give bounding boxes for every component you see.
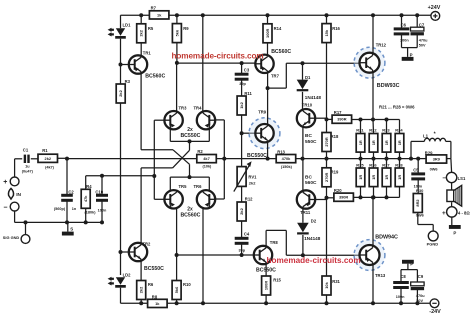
svg-text:R2: R2 — [197, 149, 203, 154]
svg-text:R27: R27 — [382, 162, 390, 167]
wire TR1 to lower pair tail — [141, 149, 173, 151]
inductor L1 — [410, 141, 412, 158]
wire TR8 emitter to R15 — [265, 264, 267, 276]
svg-text:C6: C6 — [401, 23, 407, 28]
svg-text:L1: L1 — [423, 133, 429, 138]
wire TR10 base to node — [315, 117, 326, 119]
svg-text:LD1: LD1 — [123, 23, 132, 28]
node rail R5/R7 — [139, 13, 143, 17]
wire TR11 base — [315, 199, 326, 201]
node C4 / TR8 base wire — [240, 253, 244, 257]
wire input plus to C1 — [14, 159, 16, 177]
svg-text:(4k7): (4k7) — [45, 166, 55, 170]
resistor R1 — [38, 154, 58, 162]
wire TR10 emitter to bus — [302, 127, 304, 158]
svg-text:1R: 1R — [371, 175, 376, 180]
wire TR9 collector up — [267, 88, 269, 124]
svg-text:1R: 1R — [384, 140, 389, 145]
svg-text:R3: R3 — [125, 79, 131, 84]
svg-text:2k2: 2k2 — [239, 207, 244, 214]
svg-text:1R: 1R — [384, 175, 389, 180]
resistor R9 — [176, 15, 178, 23]
transistor TR3 — [164, 111, 182, 129]
svg-text:R6: R6 — [148, 282, 154, 287]
svg-text:8R2: 8R2 — [415, 199, 420, 207]
transistor TR5 — [164, 190, 182, 208]
node D1 anode — [301, 61, 305, 65]
svg-text:BC: BC — [305, 133, 312, 139]
transistor TR9 — [249, 118, 280, 149]
wire TR3 collector — [176, 63, 178, 111]
node L1 riser — [409, 157, 413, 161]
resistor R31 — [322, 276, 331, 295]
capacitor C3 — [241, 63, 243, 74]
transistor TR7 — [255, 55, 273, 73]
svg-text:TR11: TR11 — [300, 210, 311, 215]
svg-text:+: + — [442, 210, 446, 217]
wire R16 to driver node — [326, 43, 328, 120]
node feedback — [216, 158, 276, 160]
resistor R21 — [360, 120, 362, 134]
wire upper tail — [189, 141, 191, 150]
svg-text:BC550C: BC550C — [247, 153, 267, 159]
node TR7 collector / TR9 collector — [267, 73, 269, 88]
wire TR1 collector down — [140, 74, 142, 150]
transistor TR11 — [297, 190, 315, 208]
wire TR5/TR6 emitter bridge — [169, 177, 171, 190]
wire TR11 collector to bus — [302, 159, 304, 191]
resistor R22 — [372, 120, 375, 134]
svg-text:1R: 1R — [358, 175, 363, 180]
svg-text:1R: 1R — [371, 140, 376, 145]
resistor R2 — [197, 155, 217, 163]
wire emitter resistor top row feed — [352, 119, 400, 121]
svg-text:+: + — [3, 179, 7, 186]
svg-text:homemade-circuits.com: homemade-circuits.com — [267, 256, 361, 265]
svg-text:C9: C9 — [418, 274, 424, 279]
wire lower tail — [189, 164, 191, 177]
svg-text:TR3: TR3 — [179, 105, 188, 110]
svg-text:39p: 39p — [239, 82, 246, 86]
ground S symbol — [67, 222, 69, 231]
transistor TR8 — [177, 254, 254, 256]
svg-text:470k: 470k — [282, 156, 291, 161]
svg-text:50V: 50V — [419, 43, 426, 47]
wire TR12 collector to rail — [372, 15, 374, 53]
node TR9 base — [240, 131, 244, 135]
speaker LS1 — [451, 183, 453, 190]
transistor TR4 — [197, 111, 215, 129]
svg-text:SIG GND: SIG GND — [3, 235, 20, 240]
svg-text:R30: R30 — [416, 188, 424, 193]
svg-text:1N4148: 1N4148 — [305, 95, 322, 100]
terminal PGND — [428, 231, 438, 241]
terminal input minus — [10, 202, 19, 211]
svg-text:5k6: 5k6 — [174, 286, 179, 293]
svg-text:R1: R1 — [42, 148, 48, 153]
wire TR13 emitter up — [372, 197, 374, 245]
wire output to speaker — [450, 159, 453, 173]
wire TR13 collector to rail — [372, 265, 374, 304]
ground P top — [407, 48, 409, 57]
svg-text:TR1: TR1 — [143, 51, 152, 56]
terminal input plus — [10, 177, 19, 186]
wire TR9 emitter to bus — [267, 142, 269, 158]
wire -24V bottom rail — [121, 302, 431, 304]
svg-text:P: P — [410, 261, 413, 266]
svg-text:R17: R17 — [334, 110, 342, 115]
resistor R6 — [137, 281, 146, 300]
wire R4/C10 line — [85, 176, 87, 190]
svg-text:R31: R31 — [332, 279, 340, 284]
svg-text:270R: 270R — [324, 137, 329, 146]
wire rail to TR4 collector — [201, 13, 205, 17]
resistor R25 — [360, 159, 362, 168]
resistor R7 — [149, 11, 169, 19]
svg-text:R16: R16 — [332, 26, 340, 31]
svg-text:2k2: 2k2 — [45, 156, 52, 161]
wire output bus — [296, 158, 411, 160]
svg-text:R28: R28 — [395, 162, 403, 167]
wire LED chain middle — [120, 103, 122, 275]
resistor R15 — [262, 276, 271, 295]
svg-text:270R: 270R — [324, 172, 329, 181]
svg-text:1N4148: 1N4148 — [304, 236, 321, 241]
svg-text:R12: R12 — [245, 197, 253, 202]
svg-text:BC560C: BC560C — [180, 213, 200, 219]
trimmer RV1 — [237, 167, 246, 187]
resistor R11 — [237, 96, 246, 115]
svg-text:R25: R25 — [356, 162, 364, 167]
svg-text:R24: R24 — [395, 128, 403, 133]
wire R9 node to TR7 base — [177, 62, 255, 64]
wire C2 stub — [66, 159, 68, 195]
wire TR12 emitter — [372, 73, 374, 120]
svg-text:560C: 560C — [305, 180, 317, 186]
transistor TR10 — [297, 109, 315, 127]
svg-text:R19: R19 — [331, 170, 339, 175]
wire TR5 collector to R10 — [176, 208, 178, 280]
wire to TR12 base — [268, 87, 287, 89]
svg-text:TR12: TR12 — [376, 43, 387, 48]
svg-text:TR9: TR9 — [258, 110, 267, 115]
svg-text:C10: C10 — [95, 190, 103, 195]
svg-text:4k7: 4k7 — [203, 156, 210, 161]
svg-text:0W6: 0W6 — [430, 166, 439, 171]
svg-text:R29: R29 — [425, 151, 433, 156]
resistor R5 — [140, 15, 142, 24]
wire C8 C9 join — [401, 269, 417, 271]
svg-text:R23: R23 — [382, 128, 390, 133]
resistor R17 — [327, 118, 333, 120]
svg-text:R20: R20 — [334, 188, 342, 193]
capacitor C7 — [415, 13, 419, 17]
svg-text:LS1: LS1 — [458, 176, 466, 181]
svg-text:R9: R9 — [183, 26, 189, 31]
resistor R26 — [373, 159, 375, 168]
node D2 / TR13 base wire — [301, 253, 305, 257]
svg-text:TR7: TR7 — [271, 73, 280, 78]
resistor R20 — [327, 197, 335, 199]
wire +24V top rail — [121, 14, 432, 16]
svg-text:+24V: +24V — [428, 5, 441, 11]
svg-text:BDW93C: BDW93C — [377, 83, 400, 89]
svg-text:BC550C: BC550C — [180, 133, 200, 139]
svg-text:P: P — [410, 52, 413, 57]
wire TR8 collector to TR13 base — [265, 230, 267, 246]
wire emitter resistor bottom row feed — [353, 196, 399, 198]
svg-text:470u: 470u — [419, 39, 428, 43]
resistor R19 — [326, 159, 328, 168]
node rail R7/R9 — [175, 13, 179, 17]
diode D2 — [302, 209, 304, 223]
transistor TR2 — [121, 251, 129, 253]
svg-text:1R: 1R — [397, 175, 402, 180]
svg-text:47k: 47k — [83, 195, 88, 202]
svg-text:*: * — [434, 131, 437, 137]
svg-text:TR5: TR5 — [179, 184, 188, 189]
svg-text:D2: D2 — [311, 219, 317, 224]
node TR2 base tap — [119, 250, 123, 254]
node bases bus / R4-C10 line — [152, 174, 156, 178]
terminal SIG GND — [25, 222, 27, 234]
svg-text:TR6: TR6 — [194, 184, 203, 189]
resistor R24 — [399, 120, 401, 134]
svg-text:P: P — [453, 230, 456, 235]
transistor TR6 — [197, 190, 215, 208]
svg-text:390R: 390R — [337, 117, 346, 122]
transistor TR12 — [354, 47, 385, 78]
svg-text:15k: 15k — [324, 29, 329, 36]
svg-text:550C: 550C — [305, 139, 317, 145]
svg-text:C8: C8 — [400, 274, 406, 279]
svg-text:BC: BC — [305, 175, 312, 181]
svg-text:PGND: PGND — [427, 242, 439, 247]
terminal speaker plus — [447, 207, 457, 217]
resistor R16 — [325, 13, 329, 17]
svg-text:R22: R22 — [369, 128, 377, 133]
node R1 output — [58, 157, 68, 159]
svg-text:C3: C3 — [244, 67, 250, 72]
svg-text:(150k): (150k) — [281, 165, 293, 169]
svg-text:R21 ... R28 = 0W6: R21 ... R28 = 0W6 — [379, 104, 415, 109]
svg-text:2k2: 2k2 — [139, 29, 144, 36]
svg-text:R18: R18 — [331, 134, 339, 139]
svg-text:S: S — [70, 227, 73, 232]
svg-text:0W6: 0W6 — [416, 213, 425, 218]
svg-text:BC560C: BC560C — [145, 74, 165, 80]
resistor R23 — [386, 120, 388, 134]
resistor R29 — [411, 158, 426, 160]
svg-text:3R9: 3R9 — [433, 157, 441, 162]
svg-text:TR13: TR13 — [375, 273, 386, 278]
svg-text:10k: 10k — [324, 281, 329, 288]
resistor R4 — [81, 189, 90, 208]
svg-text:TR4: TR4 — [194, 105, 203, 110]
capacitor C10 — [101, 176, 103, 194]
resistor R10 — [172, 281, 181, 300]
transistor TR1 — [121, 64, 129, 66]
capacitor C4 — [235, 237, 249, 240]
svg-text:C5: C5 — [413, 168, 419, 173]
svg-text:2k2: 2k2 — [249, 181, 256, 186]
svg-text:1n: 1n — [72, 207, 77, 211]
ground P speaker — [451, 217, 453, 225]
svg-text:RV1: RV1 — [248, 175, 257, 180]
svg-text:1u: 1u — [25, 164, 30, 168]
svg-text:C4: C4 — [244, 232, 250, 237]
capacitor C2 — [61, 194, 73, 197]
capacitor C1 — [24, 155, 26, 163]
LED LD1 — [116, 28, 125, 36]
svg-text:TR2: TR2 — [142, 241, 151, 246]
svg-text:D1: D1 — [305, 75, 311, 80]
svg-text:4 - 8Ω: 4 - 8Ω — [458, 211, 470, 216]
resistor R27 — [386, 159, 388, 168]
svg-text:LD2: LD2 — [123, 273, 132, 278]
wire signal ground — [14, 211, 16, 222]
svg-text:−: − — [3, 204, 7, 211]
transistor TR13 — [354, 240, 385, 271]
svg-text:homemade-circuits.com: homemade-circuits.com — [172, 52, 264, 61]
svg-text:BC550C: BC550C — [144, 266, 164, 272]
svg-text:BDW94C: BDW94C — [375, 234, 398, 240]
wire bases of TR4/TR6 — [223, 120, 225, 199]
node TR1 base tap — [119, 63, 123, 67]
wire R31 column — [326, 198, 328, 276]
svg-text:(10k): (10k) — [202, 165, 212, 169]
capacitor C9 — [416, 270, 418, 282]
svg-text:390R: 390R — [339, 195, 348, 200]
svg-text:2k2: 2k2 — [139, 286, 144, 293]
wire C6 C7 join — [402, 47, 418, 49]
svg-text:C2: C2 — [68, 190, 74, 195]
capacitor C5 — [417, 159, 419, 173]
resistor R8 — [148, 299, 168, 307]
svg-text:TR10: TR10 — [302, 103, 313, 108]
resistor R12 — [237, 202, 246, 221]
terminal speaker minus — [446, 172, 456, 182]
svg-text:C1: C1 — [23, 148, 29, 153]
svg-text:(0u47): (0u47) — [22, 169, 34, 173]
wire R30 to PGND — [418, 224, 433, 226]
svg-text:R7: R7 — [151, 5, 157, 10]
svg-text:1R: 1R — [358, 140, 363, 145]
capacitor C6 — [400, 13, 404, 17]
wire main input line — [67, 158, 197, 160]
svg-text:R15: R15 — [273, 277, 281, 282]
ground P bottom — [402, 260, 414, 264]
svg-text:BC560C: BC560C — [271, 49, 291, 55]
wire TR2 to upper pair tail — [141, 167, 173, 169]
wire TR2 emitter to R6 — [140, 261, 142, 280]
terminal +24V — [431, 12, 440, 21]
svg-text:C7: C7 — [419, 22, 425, 27]
wire TR2 collector up — [140, 168, 142, 243]
node TR11 base / R20 — [325, 196, 329, 200]
svg-text:1k2: 1k2 — [239, 101, 244, 108]
wire TR3/TR4 emitter bridge — [169, 129, 171, 141]
svg-text:R10: R10 — [183, 282, 191, 287]
svg-text:5k6: 5k6 — [174, 29, 179, 36]
resistor R18 — [326, 119, 328, 132]
svg-text:R13: R13 — [277, 149, 285, 154]
svg-text:R26: R26 — [369, 162, 377, 167]
wire TR6 collector to rail — [202, 208, 204, 303]
node C5 — [416, 157, 420, 161]
resistor R3 — [116, 84, 125, 103]
svg-text:−: − — [442, 175, 446, 182]
node R9 bottom / VAS wire — [176, 43, 178, 63]
svg-text:R8: R8 — [152, 295, 158, 300]
resistor R28 — [399, 159, 401, 168]
svg-text:R21: R21 — [356, 128, 364, 133]
input arrow — [8, 188, 13, 199]
svg-text:(560p): (560p) — [54, 207, 66, 211]
svg-text:R4: R4 — [86, 184, 92, 189]
wire input bases bus — [153, 120, 155, 199]
LED LD2 — [116, 277, 125, 285]
svg-text:R14: R14 — [274, 26, 282, 31]
svg-text:R5: R5 — [148, 26, 154, 31]
svg-text:100R: 100R — [264, 281, 269, 290]
svg-text:2k2: 2k2 — [118, 89, 123, 96]
terminal -24V — [430, 299, 439, 308]
diode D1 — [302, 63, 304, 79]
resistor R14 — [267, 15, 269, 24]
svg-text:-24V: -24V — [429, 309, 441, 315]
svg-text:R11: R11 — [244, 91, 252, 96]
svg-text:100R: 100R — [265, 28, 270, 37]
svg-text:1R: 1R — [397, 140, 402, 145]
svg-text:IN: IN — [16, 192, 21, 198]
resistor R13 — [276, 155, 296, 163]
capacitor C8 — [400, 270, 402, 281]
svg-text:TR8: TR8 — [270, 240, 279, 245]
node VAS wire / C3 — [240, 61, 244, 65]
